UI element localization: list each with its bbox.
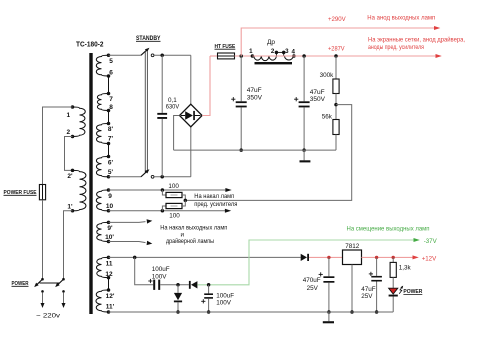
heater lead 10': [109, 241, 153, 246]
transformer primary winding 1-2: [73, 107, 86, 137]
transformer primary winding 2'-1': [73, 170, 86, 210]
pin 6 dot: [107, 74, 111, 78]
svg-text:ТС-180-2: ТС-180-2: [76, 40, 104, 49]
R100 top label: [168, 183, 179, 190]
choke pin 1 label: [249, 48, 253, 55]
transformer secondary winding 12'-11': [96, 290, 109, 312]
choke tap link 2-3: [276, 51, 283, 53]
svg-text:На анод выходных ламп: На анод выходных ламп: [367, 15, 435, 22]
svg-text:630V: 630V: [166, 104, 180, 111]
power switch contact A: [41, 290, 44, 293]
+287V rail: [294, 54, 442, 58]
wire 12-12p: [108, 278, 110, 290]
svg-text:100: 100: [168, 183, 179, 190]
R100 bottom label: [169, 213, 180, 220]
cap 0.1 label: [166, 97, 180, 111]
pin 10 dot: [107, 209, 111, 213]
choke L1 label: [267, 39, 275, 46]
svg-text:11': 11': [106, 304, 115, 311]
svg-text:-37V: -37V: [424, 238, 438, 245]
pin 10' dot: [107, 240, 111, 244]
pin 7 dot: [107, 92, 111, 96]
pin 11 dot: [107, 256, 111, 260]
pin 1' label: [67, 203, 73, 210]
wire bias branch: [135, 257, 154, 284]
pin 10' label: [105, 234, 114, 241]
standby switch bottom pole: [141, 168, 154, 178]
screen note line2: [368, 44, 424, 51]
wire pin5' to standby bottom: [109, 176, 141, 178]
+290V rail: [241, 26, 440, 56]
junction dot cap 0.1 bottom: [160, 175, 164, 179]
capacitor C 100uF 100V coupling: [148, 279, 160, 290]
transformer secondary winding 7-8: [97, 94, 108, 111]
choke tap 2 dot: [275, 51, 279, 56]
svg-text:драйверной лампы: драйверной лампы: [166, 238, 214, 245]
power fuse F1: [39, 185, 45, 200]
capacitor C1 47uF 350V: [231, 97, 247, 150]
junction dot reservoir: [207, 283, 211, 287]
wire bridge minus to ground bus: [174, 116, 180, 151]
pin 12' label: [106, 293, 115, 300]
svg-text:+290V: +290V: [328, 16, 346, 23]
choke winding 3-4: [284, 56, 293, 60]
svg-text:+12V: +12V: [422, 255, 437, 262]
pin 11 label: [106, 260, 113, 267]
transformer core: [89, 53, 92, 314]
pin 5 label: [109, 58, 113, 65]
transformer T1 label TC-180-2: [76, 40, 104, 49]
junction dot 7812 bus: [350, 310, 354, 314]
resistor R 1.3k: [390, 257, 396, 288]
junction dot bias jn: [176, 283, 180, 287]
svg-text:300k: 300k: [320, 72, 335, 79]
junction dot rail10: [161, 209, 165, 213]
standby switch link: [145, 52, 147, 173]
svg-text:1,3k: 1,3k: [399, 264, 412, 271]
transformer secondary winding 8'-7': [97, 124, 109, 144]
power switch link: [40, 282, 60, 284]
output heater note 1: [160, 225, 227, 232]
svg-text:47uF: 47uF: [310, 89, 325, 96]
pin 9 label: [108, 193, 112, 200]
regulator U1 7812: [343, 250, 362, 265]
heater note 1: [194, 193, 234, 200]
pin 5' dot: [107, 175, 111, 179]
pin 1' dot: [71, 209, 75, 213]
wire bridge bottom to ac rail: [190, 127, 192, 177]
+12V label: [422, 255, 437, 262]
wire ht fuse to junction: [235, 55, 253, 57]
svg-text:2': 2': [67, 173, 73, 180]
svg-text:7': 7': [108, 135, 114, 142]
svg-text:3: 3: [285, 48, 289, 55]
wire 300k-56k: [335, 94, 337, 120]
pin 7 label: [109, 96, 113, 103]
output heater note i: [181, 232, 185, 239]
choke winding 1-2: [254, 56, 277, 61]
pin 8 dot: [107, 109, 111, 113]
svg-text:1': 1': [67, 203, 73, 210]
svg-text:6': 6': [108, 160, 114, 167]
svg-text:5': 5': [108, 169, 114, 176]
mains 220v label: [36, 312, 61, 319]
svg-text:На накал ламп: На накал ламп: [194, 193, 234, 200]
svg-text:100uF: 100uF: [216, 292, 234, 299]
pin 12 dot: [107, 276, 111, 280]
capacitor C2 47uF 350V: [294, 97, 310, 150]
pin 8' label: [108, 126, 114, 133]
bias note: [347, 226, 430, 233]
wire top rail to bridge top: [190, 55, 192, 104]
wire pin2 to pin2p: [65, 137, 73, 171]
pin 2' dot: [71, 169, 75, 173]
svg-text:12': 12': [106, 293, 115, 300]
standby switch top pole: [141, 46, 154, 56]
wire standby bottom to bridge: [154, 176, 191, 178]
red rail diode to 7812: [309, 256, 343, 258]
svg-text:4: 4: [291, 49, 295, 56]
transformer secondary winding 6'-5': [96, 157, 108, 177]
junction dot 300k top: [334, 54, 338, 58]
POWER FUSE label: [4, 190, 37, 196]
svg-text:470uF: 470uF: [303, 277, 321, 284]
resistor R100 b: [162, 200, 185, 210]
wire 8-8p: [108, 111, 110, 124]
svg-text:350V: 350V: [310, 96, 326, 103]
pin 1 label: [66, 112, 70, 119]
pin 10 label: [106, 203, 114, 210]
svg-text:100uF: 100uF: [152, 266, 170, 273]
capacitor 0.1uF 630V: [157, 55, 167, 177]
svg-text:56k: 56k: [322, 114, 333, 121]
svg-text:8': 8': [108, 126, 114, 133]
svg-text:25V: 25V: [361, 293, 373, 300]
wire choke span: [252, 55, 294, 57]
cap 47uF25 label: [361, 286, 376, 300]
pin 2 dot: [71, 135, 75, 139]
transformer secondary winding 11-12: [96, 257, 108, 277]
pin 6 label: [109, 70, 113, 77]
red rail 7812 out: [362, 255, 419, 259]
junction dot cap B bus: [302, 148, 306, 152]
junction dot 470 bus: [327, 310, 331, 314]
svg-text:На экранные сетки, анод драйве: На экранные сетки, анод драйвера,: [368, 36, 465, 44]
pin 7' label: [108, 135, 114, 142]
pin 2' label: [67, 173, 73, 180]
wire divider to heater: [185, 105, 351, 201]
svg-text:Др: Др: [267, 39, 275, 46]
transformer secondary winding 9-10: [96, 190, 108, 211]
pin 6' label: [108, 160, 114, 167]
junction dot cap 0.1 top: [160, 54, 164, 58]
power switch contact B: [62, 290, 65, 293]
resistor R100 a: [162, 190, 185, 200]
power switch pole B: [54, 278, 65, 288]
diode D series 12V: [301, 254, 309, 261]
svg-text:350V: 350V: [247, 95, 263, 102]
svg-text:На смещение выходных ламп: На смещение выходных ламп: [347, 226, 430, 233]
heater lead 9': [109, 219, 153, 224]
svg-text:~ 220v: ~ 220v: [36, 312, 61, 319]
mains lead B arrow: [62, 293, 66, 308]
svg-text:1: 1: [66, 112, 70, 119]
wire 287 to cap B: [303, 56, 305, 101]
pin 5' label: [108, 169, 114, 176]
pin 7' dot: [107, 142, 111, 146]
pin 9' label: [107, 225, 113, 232]
diode D shunt: [174, 285, 182, 312]
junction dot reservoir bus: [207, 310, 211, 314]
choke pin 3 label: [285, 48, 289, 55]
mains lead A arrow: [41, 293, 45, 308]
ht fuse F2: [218, 53, 235, 59]
7812 label: [345, 243, 360, 250]
junction dot 47 bus: [375, 310, 379, 314]
wire pin5 to standby switch: [109, 54, 141, 56]
pin 12 label: [105, 271, 113, 278]
svg-text:1: 1: [249, 48, 253, 55]
svg-text:2: 2: [66, 129, 70, 136]
junction dot shunt bus: [176, 310, 180, 314]
pin 11' dot: [107, 310, 111, 314]
wire pin11 rail: [109, 256, 301, 258]
svg-text:100: 100: [169, 213, 180, 220]
choke pin 4 dot: [292, 54, 296, 58]
anode note: [367, 15, 435, 22]
choke core: [255, 62, 293, 64]
wire 6-7: [108, 76, 110, 94]
R1.3k label: [399, 264, 412, 271]
junction dot divider: [334, 103, 338, 107]
wire pin1' to power switch: [64, 211, 73, 278]
cap C1 label: [247, 87, 263, 101]
svg-text:+287V: +287V: [328, 46, 345, 53]
choke pin 4 label: [291, 49, 295, 56]
resistor R 300k: [333, 79, 339, 94]
transformer secondary winding 5-6: [96, 55, 108, 76]
pin 8' dot: [107, 122, 111, 126]
power switch pole A: [33, 278, 44, 288]
LED arrows: [399, 285, 404, 294]
pin 9 dot: [107, 188, 111, 192]
choke pin 2 label: [271, 48, 275, 55]
POWER LED label: [403, 289, 422, 295]
cap coupling label: [152, 266, 170, 280]
ground bus HV: [174, 149, 336, 151]
pin 12' dot: [107, 288, 111, 292]
cap 470uF label: [303, 277, 321, 292]
svg-text:47uF: 47uF: [247, 87, 262, 94]
bottom bus: [109, 311, 394, 313]
junction dot cap B: [302, 54, 306, 58]
HT FUSE label: [215, 44, 236, 50]
wire cap to diode jn: [160, 284, 189, 286]
svg-text:100V: 100V: [216, 299, 232, 306]
regulator ground pin: [351, 265, 353, 313]
R300k label: [320, 72, 335, 79]
junction dot 290V: [239, 54, 243, 58]
screen note line1: [368, 36, 465, 44]
capacitor C 47uF 25V: [369, 257, 382, 312]
junction dot cap A bus: [239, 148, 243, 152]
svg-text:7: 7: [109, 96, 113, 103]
pin 9' dot: [107, 221, 111, 225]
wire fuse to power switch: [42, 200, 44, 278]
pin 8 label: [109, 104, 113, 111]
cap C2 label: [310, 89, 326, 103]
green bias wire: [197, 238, 419, 285]
junction dot 47uF: [375, 256, 378, 259]
svg-text:9': 9': [107, 225, 113, 232]
pin 11' label: [106, 304, 115, 311]
+287V label: [328, 46, 345, 53]
pin 2 label: [66, 129, 70, 136]
svg-text:На накал выходных ламп: На накал выходных ламп: [160, 225, 227, 232]
svg-text:5: 5: [109, 58, 113, 65]
svg-text:25V: 25V: [307, 285, 319, 292]
heater rail 9: [109, 188, 232, 192]
resistor R 56k: [333, 120, 339, 135]
pin 1 dot: [71, 105, 75, 109]
wire 7p-6p: [108, 144, 110, 157]
svg-text:10: 10: [106, 203, 114, 210]
wire 56k to bus: [335, 135, 337, 151]
svg-text:100V: 100V: [152, 273, 168, 280]
svg-text:9: 9: [108, 193, 112, 200]
pin 6' dot: [107, 155, 111, 159]
junction dot humdinger: [184, 199, 188, 203]
choke pin 1 dot: [251, 54, 255, 58]
heater note 2: [194, 201, 237, 208]
junction dot 470uF: [327, 256, 330, 259]
wire 290junction to cap A: [240, 56, 242, 101]
junction dot rail9: [161, 188, 165, 192]
capacitor C 100uF 100V reservoir: [201, 285, 213, 312]
svg-text:2: 2: [271, 48, 275, 55]
LED power indicator: [389, 288, 398, 312]
cap reservoir label: [216, 292, 234, 306]
STANDBY label: [136, 35, 161, 42]
ground symbol HV: [300, 150, 311, 162]
R56k label: [322, 114, 333, 121]
-37V label: [424, 238, 438, 245]
bridge rectifier D1-D4: [180, 104, 203, 127]
svg-text:11: 11: [106, 260, 113, 267]
ground symbol 12V: [323, 312, 334, 323]
junction dot bias branch: [133, 256, 137, 260]
svg-text:7812: 7812: [345, 243, 360, 250]
+290V label: [328, 16, 346, 23]
diode D series bias: [189, 281, 198, 289]
svg-text:аноды пред. усилителя: аноды пред. усилителя: [368, 44, 424, 51]
heater rail 10: [109, 209, 232, 213]
output heater note 2: [166, 238, 214, 245]
junction dot led branch: [392, 256, 395, 259]
svg-text:10': 10': [105, 234, 114, 241]
wire standby top to bridge: [154, 54, 191, 56]
svg-text:пред. усилителя: пред. усилителя: [194, 201, 237, 208]
wire 287 to 300k: [335, 56, 337, 79]
POWER label: [12, 281, 30, 287]
capacitor C 470uF 25V: [319, 257, 335, 312]
pin 5 dot: [107, 54, 111, 58]
choke tap 3 dot: [282, 51, 286, 56]
wire red to ht fuse: [210, 55, 218, 57]
wire bridge plus riser: [202, 56, 210, 116]
wire pin1 to power fuse: [43, 107, 73, 185]
transformer secondary winding 9'-10': [97, 222, 109, 241]
